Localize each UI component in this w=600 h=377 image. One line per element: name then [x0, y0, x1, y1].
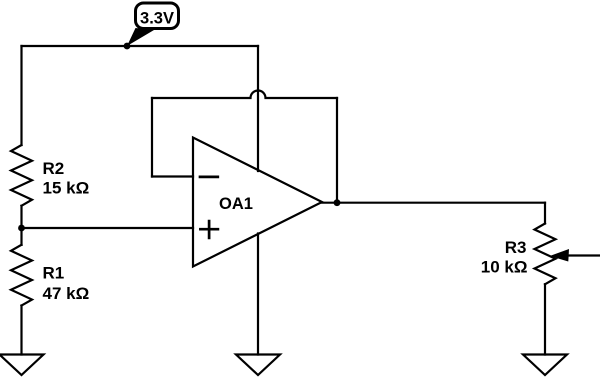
- 3.3V supply flag tail: [127, 28, 154, 46]
- op-amp inverting input marker (minus): [200, 176, 218, 179]
- op-amp noninverting input marker (plus): [200, 221, 218, 238]
- wire V+ power pin from 3.3V rail to op-amp top edge: [257, 46, 259, 171]
- ground (center, under op-amp): [236, 355, 280, 376]
- junction output node (op-amp output / feedback): [334, 199, 341, 206]
- svg-text:R3: R3: [505, 238, 527, 257]
- wire noninverting input to op-amp: [22, 227, 194, 229]
- svg-text:10 kΩ: 10 kΩ: [481, 258, 528, 277]
- wire feedback top with hop over V+ wire: [152, 91, 337, 98]
- resistor R2: [11, 145, 32, 206]
- svg-text:3.3V: 3.3V: [140, 10, 174, 28]
- ground (left, under R1): [0, 355, 44, 376]
- wire left rail top (corner to R2): [20, 46, 22, 145]
- potentiometer R3 wiper arrowhead: [550, 249, 569, 262]
- svg-text:15 kΩ: 15 kΩ: [43, 179, 90, 198]
- svg-text:R1: R1: [43, 264, 65, 283]
- 3.3V supply flag box: [136, 3, 179, 29]
- wire feedback vertical right (output node up): [336, 98, 338, 203]
- junction node A (R2/R1 divider to + input): [18, 225, 25, 232]
- wire R3 bottom to ground: [544, 284, 546, 354]
- ground (right, under R3): [523, 355, 567, 376]
- wire top rail from left corner to V+ drop: [22, 45, 259, 47]
- wire output corner down to R3 top: [544, 203, 546, 224]
- wire R2 bottom to R1 top: [20, 206, 22, 245]
- svg-text:R2: R2: [43, 159, 65, 178]
- op-amp OA1 triangle body: [193, 138, 322, 267]
- potentiometer R3 zigzag: [535, 224, 556, 285]
- potentiometer R3 wiper shaft: [566, 254, 600, 256]
- junction dot at 3.3V tap: [124, 43, 131, 50]
- wire feedback left vertical down to inverting input: [151, 98, 153, 177]
- wire R1 bottom to ground: [20, 306, 22, 355]
- wire output from op-amp apex to R3: [322, 202, 545, 204]
- svg-text:OA1: OA1: [219, 195, 253, 213]
- wire feedback into inverting input: [152, 175, 193, 177]
- wire V- power pin from op-amp bottom edge to ground: [257, 234, 259, 355]
- resistor R1: [11, 245, 32, 306]
- svg-text:47 kΩ: 47 kΩ: [43, 284, 90, 303]
